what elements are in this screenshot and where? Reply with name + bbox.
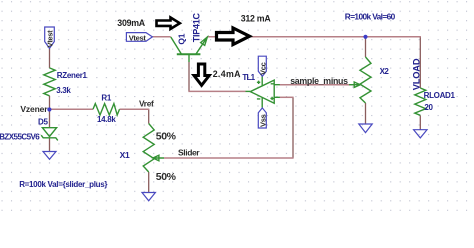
wire slider net horizontal to X1 wiper bbox=[164, 157, 294, 159]
svg-text:Slider: Slider bbox=[178, 147, 200, 157]
wire X1 top lead vertical bbox=[148, 109, 150, 123]
potentiometer X1 wiper arrow bbox=[153, 155, 164, 161]
svg-text:RLOAD1: RLOAD1 bbox=[424, 91, 456, 100]
wire RLOAD1 bottom to ground bbox=[419, 115, 421, 129]
svg-text:R1: R1 bbox=[101, 94, 111, 103]
wire X1 bottom to ground bbox=[148, 172, 150, 192]
resistor RZener1 bbox=[44, 68, 55, 96]
op-amp output stub bbox=[246, 90, 251, 92]
wire Q1 base down to op-amp level bbox=[188, 62, 190, 91]
transistor Q1 base bar bbox=[177, 53, 201, 55]
arrow 309mA bbox=[157, 18, 180, 29]
svg-text:Vcc: Vcc bbox=[259, 62, 268, 75]
svg-text:VLOAD: VLOAD bbox=[412, 58, 422, 90]
svg-text:Q1: Q1 bbox=[176, 33, 186, 44]
ground under D5 bbox=[43, 152, 56, 160]
wire top rail right corner down to RLOAD1 bbox=[419, 37, 421, 88]
wire Q1 emitter to top rail right corner bbox=[207, 36, 421, 38]
svg-text:Vss: Vss bbox=[259, 114, 268, 127]
op-amp input stubs bbox=[274, 85, 280, 98]
svg-text:Vtest: Vtest bbox=[129, 33, 147, 42]
svg-text:D5: D5 bbox=[38, 118, 48, 127]
op-amp polarity marks bbox=[257, 81, 274, 101]
svg-text:14.8k: 14.8k bbox=[97, 115, 116, 124]
resistor R1 bbox=[93, 104, 120, 115]
wire Vtest flag to RZener1 bbox=[49, 48, 51, 68]
transistor Q1 collector diagonal bbox=[171, 37, 182, 54]
junction dot Vzener bbox=[47, 107, 51, 111]
ground under X1 bbox=[142, 193, 155, 201]
wire slider net vertical bbox=[292, 97, 294, 158]
wire Vtest label to Q1 collector bbox=[152, 36, 170, 38]
wire R1 to X1 top bbox=[120, 108, 150, 110]
op-amp TL1 triangle bbox=[250, 80, 274, 103]
svg-text:Vzener: Vzener bbox=[20, 104, 48, 114]
flag Vtest vertical (top-left) bbox=[45, 27, 55, 48]
wire X2 bottom to ground bbox=[365, 103, 367, 124]
svg-text:Vtest: Vtest bbox=[46, 30, 55, 48]
svg-text:R=100k Val=60: R=100k Val=60 bbox=[345, 12, 396, 22]
resistor RLOAD1 bbox=[415, 88, 426, 115]
wire X2 top lead bbox=[365, 37, 367, 57]
potentiometer X2 wiper arrow bbox=[349, 82, 360, 87]
potentiometer X1 body bbox=[143, 124, 154, 173]
svg-text:X1: X1 bbox=[120, 150, 130, 160]
ground under X2 bbox=[359, 124, 372, 133]
wire Vzener node to R1 bbox=[50, 108, 94, 110]
arrow 312mA bbox=[217, 28, 250, 45]
flag Vss bbox=[258, 108, 266, 128]
svg-text:2.4mA: 2.4mA bbox=[213, 69, 241, 79]
transistor Q1 base stub bbox=[188, 54, 190, 62]
op-amp supply stubs bbox=[261, 76, 263, 107]
svg-text:3.3k: 3.3k bbox=[56, 86, 71, 95]
svg-text:50%: 50% bbox=[156, 131, 177, 143]
svg-text:309mA: 309mA bbox=[117, 18, 145, 28]
junction dot top rail / X2 bbox=[363, 35, 367, 39]
svg-text:R=100k Val={slider_plus}: R=100k Val={slider_plus} bbox=[19, 180, 107, 189]
wire RZener1 to D5 through Vzener node bbox=[49, 96, 51, 128]
svg-text:Vref: Vref bbox=[139, 99, 154, 109]
svg-text:312 mA: 312 mA bbox=[241, 14, 272, 24]
potentiometer X2 body bbox=[360, 57, 371, 103]
svg-text:X2: X2 bbox=[380, 67, 390, 76]
svg-text:TL1: TL1 bbox=[242, 73, 255, 82]
svg-text:BZX55C5V6: BZX55C5V6 bbox=[0, 133, 40, 142]
svg-text:20: 20 bbox=[424, 103, 433, 112]
flag Vcc bbox=[258, 56, 266, 76]
wire op-amp minus input to X2 wiper bbox=[280, 84, 354, 86]
wire op-amp plus input to slider vertical bbox=[280, 96, 294, 98]
svg-text:50%: 50% bbox=[156, 171, 177, 183]
zener diode D5 bbox=[42, 128, 56, 137]
svg-text:TIP41C: TIP41C bbox=[191, 13, 201, 43]
flag Vtest horizontal (at Q1) bbox=[126, 33, 152, 42]
svg-text:sample_minus: sample_minus bbox=[290, 76, 348, 86]
ground under RLOAD1 bbox=[414, 130, 427, 138]
wire D5 to ground bbox=[49, 138, 51, 151]
transistor Q1 emitter diagonal with arrow bbox=[196, 37, 208, 54]
svg-text:RZener1: RZener1 bbox=[57, 71, 88, 80]
wire op-amp output to Q1 base corner bbox=[188, 90, 245, 92]
arrow 2.4mA (down) bbox=[194, 64, 209, 85]
